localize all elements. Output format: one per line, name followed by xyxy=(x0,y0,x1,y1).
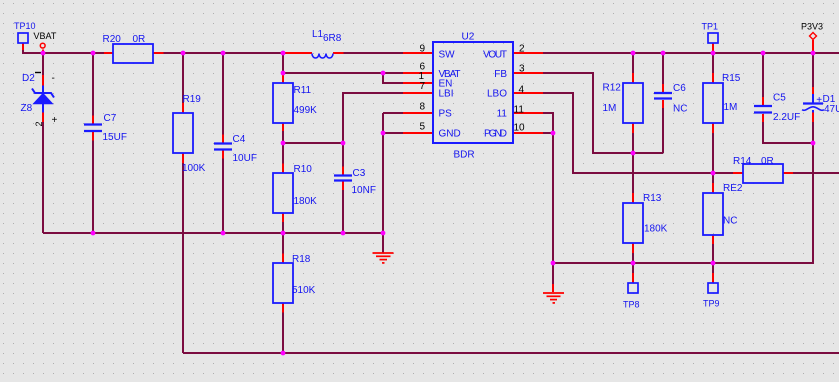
wire VOUT rail right of chip xyxy=(543,52,839,54)
svg-text:0R: 0R xyxy=(133,34,146,45)
wire pin11 PGND vertical to ground xyxy=(543,113,553,284)
svg-text:3: 3 xyxy=(519,64,525,75)
wire R19 column xyxy=(182,53,184,353)
svg-text:Z8: Z8 xyxy=(21,103,33,114)
svg-text:BDR: BDR xyxy=(454,150,475,161)
C4 pins xyxy=(222,135,224,159)
ground stem 2 red part xyxy=(552,284,554,292)
U2 left pins 9 6 1 7 8 5 xyxy=(403,53,433,133)
wire EN drop from VBAT xyxy=(383,73,403,83)
wire LBI row and vertical xyxy=(343,93,403,233)
diode D2 pins xyxy=(42,75,44,122)
ground symbol 1 (PS/GND net) xyxy=(373,253,394,263)
wire TP10 corner to VBAT node xyxy=(23,50,104,53)
wire R11 R10 R18 column xyxy=(282,53,284,353)
svg-text:180K: 180K xyxy=(644,224,668,235)
resistor R18 xyxy=(273,263,293,303)
svg-text:U2: U2 xyxy=(462,32,475,43)
svg-text:+: + xyxy=(52,115,58,126)
U2 right pins 2 3 4 11 10 xyxy=(513,53,543,133)
svg-text:C6: C6 xyxy=(673,83,686,94)
svg-text:2: 2 xyxy=(34,121,44,126)
R18 pins xyxy=(282,254,284,313)
svg-text:499K: 499K xyxy=(294,105,318,116)
IC U2 BDR xyxy=(433,42,513,143)
svg-text:R20: R20 xyxy=(103,34,122,45)
VBAT port diamond xyxy=(40,43,45,48)
wire L1 to SW pin9 xyxy=(344,52,404,54)
svg-text:10NF: 10NF xyxy=(352,185,376,196)
TP9 pin xyxy=(712,273,714,283)
test point TP8 xyxy=(628,283,638,293)
svg-text:C7: C7 xyxy=(104,113,117,124)
resistor R13 xyxy=(623,203,643,243)
svg-text:LBO: LBO xyxy=(487,89,507,100)
svg-text:TP1: TP1 xyxy=(702,22,719,32)
svg-text:P3V3: P3V3 xyxy=(801,22,823,32)
capacitor C3 xyxy=(334,176,352,181)
wire bottom rail xyxy=(183,352,839,354)
svg-text:FB: FB xyxy=(494,69,507,80)
P3V3 port stub xyxy=(812,40,814,53)
resistor R14 xyxy=(743,164,783,183)
svg-text:4: 4 xyxy=(519,85,525,96)
R11 pins xyxy=(282,74,284,132)
svg-text:11: 11 xyxy=(514,105,525,116)
svg-text:1M: 1M xyxy=(603,103,617,114)
P3V3 port diamond xyxy=(810,33,817,40)
svg-text:R11: R11 xyxy=(294,85,312,96)
wire C7 column xyxy=(92,53,94,233)
svg-text:9: 9 xyxy=(419,44,425,55)
zener diode D2 Z8 xyxy=(21,73,58,127)
capacitor C7 xyxy=(84,125,102,132)
svg-text:C3: C3 xyxy=(353,168,366,179)
svg-text:VOUT: VOUT xyxy=(483,50,507,61)
svg-text:C4: C4 xyxy=(233,134,246,145)
svg-text:2.2UF: 2.2UF xyxy=(773,112,800,123)
svg-text:180K: 180K xyxy=(294,196,318,207)
red pin stubs xyxy=(23,40,813,313)
polarized capacitor D1 xyxy=(802,94,839,115)
svg-text:11: 11 xyxy=(497,109,508,120)
svg-text:NC: NC xyxy=(673,104,687,115)
R14 pins xyxy=(733,172,793,174)
resistor R10 xyxy=(273,173,293,213)
svg-text:D2: D2 xyxy=(22,73,35,84)
svg-text:1M: 1M xyxy=(724,102,738,113)
junction dots (magenta) xyxy=(41,51,816,356)
TP8 pin xyxy=(632,273,634,283)
svg-text:VBAT: VBAT xyxy=(34,31,57,41)
TP10 pin xyxy=(22,43,24,50)
svg-text:2: 2 xyxy=(519,44,525,55)
TP1 pin xyxy=(712,43,714,53)
R13 pins xyxy=(632,193,634,253)
svg-text:R18: R18 xyxy=(292,254,311,265)
svg-text:R12: R12 xyxy=(603,83,622,94)
resistor R20 xyxy=(113,44,153,63)
C6 pins xyxy=(662,84,664,108)
svg-text:L1: L1 xyxy=(312,29,324,40)
wire VBAT pin6 row xyxy=(283,72,403,74)
capacitor C5 xyxy=(754,106,772,113)
svg-text:RE2: RE2 xyxy=(723,183,743,194)
svg-text:47UF: 47UF xyxy=(824,104,839,115)
svg-text:7: 7 xyxy=(419,81,425,92)
C7 pins xyxy=(92,116,94,141)
RE2 pins xyxy=(712,183,714,244)
capacitor C6 xyxy=(654,93,672,99)
wire mid GND rail xyxy=(43,232,383,234)
test point TP10 xyxy=(18,33,28,43)
VBAT port stub xyxy=(42,50,44,54)
capacitor C4 xyxy=(214,144,232,150)
C5 pins xyxy=(762,97,764,122)
svg-text:NC: NC xyxy=(723,216,737,227)
svg-text:TP10: TP10 xyxy=(14,21,36,31)
svg-text:0R: 0R xyxy=(761,156,774,167)
test point TP1 xyxy=(708,33,718,43)
wire R12 R13 column xyxy=(632,53,634,273)
svg-text:15UF: 15UF xyxy=(103,132,127,143)
svg-text:R19: R19 xyxy=(183,94,202,105)
wire FB net xyxy=(543,73,663,153)
svg-text:510K: 510K xyxy=(292,285,316,296)
svg-text:R13: R13 xyxy=(643,193,662,204)
svg-text:-: - xyxy=(52,73,55,84)
resistor R19 xyxy=(173,113,193,153)
svg-text:SW: SW xyxy=(439,50,456,61)
svg-text:+: + xyxy=(816,95,822,106)
svg-text:LBI: LBI xyxy=(439,89,454,100)
inductor L1 pins xyxy=(286,52,344,54)
wire C6 column xyxy=(662,53,664,153)
svg-text:GND: GND xyxy=(439,129,461,140)
D1 pins xyxy=(812,87,814,122)
svg-text:10UF: 10UF xyxy=(233,153,257,164)
svg-text:R10: R10 xyxy=(294,164,313,175)
R19 pins xyxy=(182,103,184,163)
resistor R11 xyxy=(273,83,293,123)
wire C4 column xyxy=(222,53,224,233)
R10 pins xyxy=(282,164,284,223)
test point TP9 xyxy=(708,283,718,293)
svg-text:PS: PS xyxy=(439,109,453,120)
wire: maroon net segments xyxy=(23,50,839,353)
wire LBO row to R14 xyxy=(543,93,839,173)
wire TP1 R15 RE2 TP9 column xyxy=(712,53,714,273)
wire PS GND vertical xyxy=(383,113,403,253)
wire C5 column xyxy=(763,53,813,143)
resistor R15 xyxy=(703,83,723,123)
inductor L1 xyxy=(312,54,333,59)
resistor RE2 xyxy=(703,193,723,235)
svg-text:TP8: TP8 xyxy=(623,300,640,310)
ground symbol 2 (PGND net) xyxy=(543,293,564,303)
svg-text:8: 8 xyxy=(419,102,425,113)
R12 pins xyxy=(632,73,634,133)
svg-text:10: 10 xyxy=(514,123,526,134)
svg-text:5: 5 xyxy=(419,122,425,133)
resistor R12 xyxy=(623,83,643,123)
wire P3V3 D1 column xyxy=(812,53,814,143)
C3 pins xyxy=(342,167,344,191)
svg-text:R15: R15 xyxy=(722,73,741,84)
wire R11 bottom to LBI xyxy=(283,142,343,144)
R15 pins xyxy=(712,73,714,133)
resistor R20 pins xyxy=(104,52,164,54)
wire top rail R20 right to L1 xyxy=(164,52,286,54)
wire lower GND rail xyxy=(553,143,813,263)
svg-text:C5: C5 xyxy=(773,93,786,104)
svg-text:TP9: TP9 xyxy=(703,299,720,309)
svg-text:PGND: PGND xyxy=(484,129,507,140)
svg-text:6R8: 6R8 xyxy=(323,33,342,44)
wire diode column D2 xyxy=(42,53,44,75)
svg-text:R14: R14 xyxy=(733,156,752,167)
svg-text:100K: 100K xyxy=(182,163,206,174)
